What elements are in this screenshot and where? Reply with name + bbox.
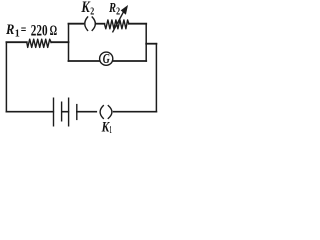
wire galvanometer to right node: [113, 60, 146, 62]
wire left vertical: [5, 42, 7, 112]
wire R2 to right node: [129, 23, 146, 25]
wire R1 lead left: [6, 41, 26, 43]
wire tap to parallel block: [146, 43, 156, 45]
wire left node to galvanometer: [69, 60, 100, 62]
wire bottom left to battery: [6, 111, 53, 113]
wire right node vertical: [145, 24, 147, 61]
svg-text:1: 1: [15, 29, 20, 40]
battery cell2 short plate: [76, 105, 78, 120]
battery cell1 short plate: [61, 102, 63, 121]
label K1: [101, 119, 112, 136]
galvanometer G: [100, 51, 113, 66]
switch K2 contacts: [85, 17, 96, 30]
label R1 = 220 ohm: [5, 22, 57, 40]
svg-text:2: 2: [116, 7, 120, 18]
wire right vertical: [155, 44, 157, 112]
rheostat R2 wiper arrow: [113, 5, 128, 32]
rheostat R2: [104, 20, 128, 29]
wire K2 to R2: [97, 23, 105, 25]
switch K1 contacts: [100, 106, 112, 119]
wire K1 to bottom right corner: [114, 111, 157, 113]
svg-text:220: 220: [31, 22, 48, 39]
svg-text:=: =: [21, 22, 27, 37]
svg-text:G: G: [103, 51, 110, 66]
wire R1 to left node: [51, 41, 68, 43]
resistor R1: [27, 39, 51, 47]
wire battery to K1: [77, 111, 97, 113]
svg-text:1: 1: [110, 125, 112, 135]
wire battery cell1 to cell2: [62, 111, 69, 113]
battery cell2 long plate: [68, 98, 70, 126]
wire left node vertical: [68, 24, 70, 61]
battery cell1 long plate: [53, 98, 55, 126]
svg-text:Ω: Ω: [50, 23, 58, 39]
svg-text:R: R: [5, 22, 14, 38]
label R2: [108, 0, 120, 18]
label K2: [81, 0, 95, 18]
svg-text:R: R: [108, 0, 116, 15]
wire left node to K2: [69, 23, 84, 25]
svg-text:2: 2: [90, 7, 94, 18]
